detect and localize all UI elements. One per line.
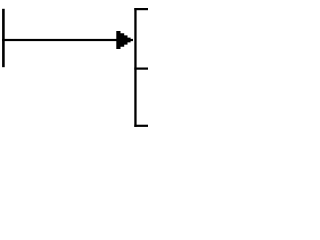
wire: right box middle divider (horizontal, clipped at right) xyxy=(134,68,148,70)
wire: right box top edge (horizontal, clipped at right) xyxy=(134,8,148,10)
wire: left node right edge (vertical segment) xyxy=(2,9,5,67)
wire: right box bottom edge (horizontal, clipped at right) xyxy=(134,125,148,127)
wire: arrow shaft (horizontal) xyxy=(2,39,118,41)
arrowhead (stepped pixel triangle pointing right) xyxy=(116,31,133,49)
wire: right box left edge (vertical segment) xyxy=(134,8,136,127)
